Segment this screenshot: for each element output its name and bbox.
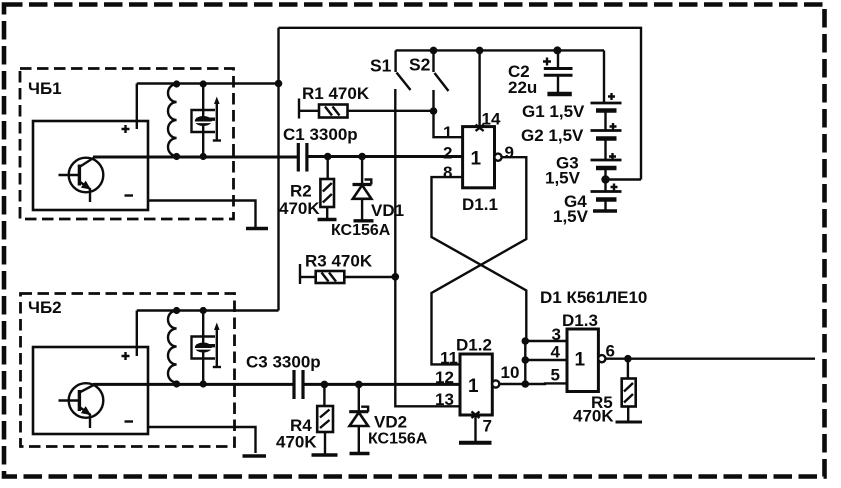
resonator ZQ2 bracket bbox=[192, 337, 216, 359]
svg-text:S2: S2 bbox=[409, 55, 431, 75]
node resonator bottom junction bbox=[200, 153, 207, 160]
switch S1 blade bbox=[397, 73, 411, 91]
svg-text:1: 1 bbox=[468, 376, 479, 397]
CHB1 inner block box bbox=[33, 121, 148, 210]
CHB2 inner block box bbox=[33, 347, 148, 434]
switch S2 blade bbox=[435, 73, 449, 91]
node S2 rail junction bbox=[430, 47, 438, 55]
wire battery tap to right rail bbox=[606, 178, 642, 180]
resistor R2 bottom lead bbox=[326, 207, 328, 219]
battery G4 plus plate bbox=[591, 190, 622, 193]
capacitor C3 left plate bbox=[292, 370, 295, 399]
gate D1.1 box bbox=[463, 127, 495, 188]
battery G3 minus plate bbox=[596, 166, 617, 171]
node pin5 junction bbox=[522, 380, 530, 388]
svg-text:3: 3 bbox=[552, 325, 561, 344]
node junction CHB1 top bbox=[275, 80, 283, 88]
battery G4 minus plate bbox=[596, 197, 617, 202]
svg-text:11: 11 bbox=[440, 349, 458, 368]
plus mark G1 bbox=[608, 93, 615, 100]
wire S1 fixed contact long vertical bbox=[395, 89, 460, 406]
wire CHB2 minus lead bbox=[148, 427, 256, 453]
svg-text:10: 10 bbox=[501, 363, 520, 382]
pin 7 cross mark bbox=[472, 412, 480, 419]
svg-text:22u: 22u bbox=[508, 78, 537, 97]
battery stack top lead bbox=[603, 50, 605, 103]
resistor R1 right lead bbox=[348, 110, 434, 112]
wire CHB2 plus terminal vertical bbox=[136, 311, 138, 357]
node resonator top junction bbox=[200, 80, 207, 87]
node resonator2 top junction bbox=[200, 307, 207, 314]
svg-text:D1.3: D1.3 bbox=[562, 311, 598, 330]
capacitor C2 top lead bbox=[557, 50, 559, 68]
svg-text:1,5V: 1,5V bbox=[553, 207, 589, 226]
svg-text:C1 3300p: C1 3300p bbox=[283, 125, 358, 144]
capacitor C1 right plate bbox=[305, 143, 308, 172]
resistor R3 right lead bbox=[344, 276, 395, 278]
node C2 rail junction bbox=[553, 46, 561, 54]
resistor R3 hatch bbox=[322, 273, 337, 282]
pin 14 cross mark bbox=[476, 125, 484, 132]
battery G3 plus plate bbox=[591, 159, 622, 162]
block CHB1 dashed box bbox=[20, 69, 234, 220]
resonator ZQ2 middle bar bbox=[195, 348, 212, 350]
wire D1.3 pin4 bbox=[525, 359, 567, 361]
svg-text:1: 1 bbox=[443, 123, 452, 142]
svg-text:1: 1 bbox=[471, 149, 482, 170]
wire C3 to D1.2 pin 12 bbox=[303, 383, 460, 386]
svg-text:470K: 470K bbox=[276, 433, 317, 452]
wire CHB1 output (collector line) bbox=[93, 156, 299, 159]
svg-text:D1 К561ЛЕ10: D1 К561ЛЕ10 bbox=[540, 288, 647, 307]
transistor VT1 emitter bbox=[79, 182, 90, 203]
svg-text:VD2: VD2 bbox=[374, 413, 407, 432]
node pin4 junction bbox=[522, 356, 530, 364]
ground for CHB2 bbox=[243, 454, 267, 458]
capacitor C2 plate 1 bbox=[544, 67, 573, 70]
battery stack bottom bar bbox=[593, 209, 617, 213]
transistor VT1 base bar bbox=[78, 165, 81, 186]
battery G1 minus plate bbox=[596, 108, 617, 113]
resistor R1 hatch bbox=[325, 107, 340, 116]
capacitor C2 plate 2 bbox=[544, 74, 573, 77]
transistor VT2 collector bbox=[79, 385, 94, 393]
gate D1.3 output bubble bbox=[598, 355, 605, 362]
wire D1.3 input bus vertical bbox=[524, 341, 526, 384]
resistor R1 left lead bbox=[299, 110, 319, 112]
transistor VT1 circle bbox=[69, 158, 104, 193]
resonator ZQ2 side bar bbox=[197, 344, 216, 347]
resonator ZQ1 bracket bbox=[192, 110, 216, 132]
svg-text:ЧБ1: ЧБ1 bbox=[28, 79, 62, 98]
svg-text:КС156А: КС156А bbox=[331, 222, 391, 239]
resonator ZQ2 trimmer foot bbox=[213, 366, 221, 368]
svg-text:470K: 470K bbox=[279, 199, 320, 218]
resonator ZQ1 trimmer line bbox=[216, 101, 218, 141]
ground for D1.2 pin7 bbox=[459, 441, 492, 445]
wire CHB2 output (collector line) bbox=[93, 383, 294, 386]
transistor VT2 circle bbox=[69, 383, 104, 418]
node R2 junction bbox=[324, 153, 332, 161]
resistor R5 body bbox=[622, 379, 636, 407]
wire D1.1 pin8 feedback bbox=[432, 177, 527, 341]
svg-text:D1.1: D1.1 bbox=[462, 195, 498, 214]
inductor L2 coil bbox=[168, 311, 177, 383]
node R5 junction bbox=[624, 355, 632, 363]
node R4 junction bbox=[321, 381, 329, 389]
wire D1.3 pin5 bbox=[525, 382, 567, 385]
transistor VT1 base lead bbox=[59, 174, 80, 176]
node L2 top junction bbox=[173, 307, 180, 314]
node VD2 junction bbox=[355, 381, 363, 389]
node VD1 junction bbox=[358, 153, 366, 161]
zener VD1 triangle bbox=[353, 185, 372, 199]
resonator ZQ1 trimmer foot bbox=[213, 139, 221, 141]
svg-text:7: 7 bbox=[483, 417, 492, 436]
transistor VT2 base lead bbox=[59, 399, 80, 401]
resistor R2 hatch bbox=[323, 183, 332, 203]
resistor R3 body bbox=[316, 271, 345, 283]
svg-text:13: 13 bbox=[435, 390, 454, 409]
transistor VT1 emitter arrow bbox=[81, 181, 91, 190]
svg-text:14: 14 bbox=[482, 110, 501, 129]
node R1/S2 junction bbox=[430, 107, 438, 115]
resonator ZQ1 body ellipse bbox=[195, 116, 212, 126]
svg-text:S1: S1 bbox=[370, 56, 392, 76]
block CHB2 dashed box bbox=[21, 294, 235, 447]
resistor R1 left tick bbox=[298, 99, 300, 119]
minus mark in CHB2 bbox=[125, 420, 134, 422]
wire CHB1 top rail bbox=[137, 82, 279, 84]
gate D1.2 box bbox=[460, 354, 492, 415]
plus mark G4 bbox=[611, 184, 618, 191]
ground for VD2 bbox=[350, 452, 370, 455]
resistor R5 hatch bbox=[624, 383, 633, 403]
resistor R3 left lead bbox=[300, 276, 316, 278]
node R3/S1 junction bbox=[392, 273, 400, 281]
svg-text:4: 4 bbox=[551, 343, 561, 362]
wire to D1.1 pin 1 bbox=[434, 111, 463, 137]
wire D1.2 pin7 ground lead bbox=[474, 415, 476, 441]
plus mark in CHB2 bbox=[122, 352, 130, 360]
zener VD2 triangle bbox=[350, 412, 369, 426]
gate D1.1 output bubble bbox=[494, 154, 501, 161]
resistor R5 bottom lead bbox=[627, 407, 629, 421]
resistor R5 top lead bbox=[627, 359, 629, 379]
zener VD2 bottom lead bbox=[358, 426, 360, 452]
battery G1 plus plate bbox=[591, 102, 622, 105]
resonator ZQ1 middle bar bbox=[195, 121, 212, 123]
resonator ZQ2 trimmer arrow bbox=[214, 323, 220, 331]
battery G2 minus plate bbox=[596, 136, 617, 141]
wire CHB2 top rail bbox=[137, 309, 279, 311]
inductor L1 coil bbox=[168, 84, 177, 156]
zener VD2 top lead bbox=[358, 384, 360, 411]
wire C1 to D1.1 pin 2 bbox=[307, 155, 463, 158]
wire S2 fixed contact bbox=[432, 90, 434, 111]
wire D1.3 pin3 bbox=[525, 340, 567, 342]
gate D1.2 output bubble bbox=[492, 380, 499, 387]
svg-text:8: 8 bbox=[443, 163, 452, 182]
transistor VT2 base bar bbox=[78, 390, 81, 411]
resistor R4 body bbox=[317, 406, 333, 432]
battery G2 plus plate bbox=[591, 129, 622, 132]
resonator ZQ1 trimmer arrow bbox=[214, 97, 220, 105]
node pin3 junction bbox=[522, 337, 530, 345]
wire CHB1 plus terminal vertical bbox=[136, 84, 138, 130]
wire center vertical bus x=278.5 bbox=[277, 28, 279, 311]
ground for R5 bbox=[616, 421, 643, 424]
resistor R2 top lead bbox=[327, 157, 329, 180]
svg-text:G1 1,5V: G1 1,5V bbox=[522, 102, 585, 121]
svg-text:ЧБ2: ЧБ2 bbox=[28, 298, 62, 317]
node battery tap junction bbox=[601, 175, 609, 183]
battery G4 bottom lead bbox=[604, 200, 606, 211]
resistor R2 body bbox=[320, 179, 334, 207]
switch S1 top stub bbox=[394, 50, 396, 72]
svg-text:КС156А: КС156А bbox=[368, 431, 428, 448]
wire top power rail bbox=[279, 28, 642, 180]
wire CHB1 minus lead bbox=[148, 201, 256, 228]
battery G1-G2 lead bbox=[604, 111, 606, 131]
capacitor C1 left plate bbox=[297, 143, 300, 172]
svg-text:1,5V: 1,5V bbox=[545, 169, 581, 188]
zener VD2 cathode bar bbox=[349, 410, 368, 413]
node L1 top junction bbox=[173, 80, 180, 87]
wire switch rail y=50.4 bbox=[396, 49, 604, 51]
svg-text:9: 9 bbox=[505, 143, 514, 162]
capacitor C3 right plate bbox=[301, 370, 304, 399]
plus mark G3 bbox=[609, 153, 616, 160]
ground for R2 bbox=[318, 218, 337, 221]
resistor R1 body bbox=[319, 105, 348, 118]
node L1 bottom junction bbox=[173, 153, 180, 160]
svg-text:R2: R2 bbox=[290, 182, 312, 201]
svg-text:12: 12 bbox=[435, 368, 454, 387]
node L2 bottom junction bbox=[173, 380, 180, 387]
resistor R4 hatch bbox=[320, 410, 330, 429]
zener VD1 cathode bar bbox=[353, 183, 372, 186]
zener VD1 hook bbox=[365, 180, 372, 185]
svg-text:G2 1,5V: G2 1,5V bbox=[521, 126, 584, 145]
plus mark C2 bbox=[543, 58, 551, 66]
wire D1.2 pin10 output bbox=[499, 383, 524, 385]
capacitor C2 bottom lead bbox=[557, 75, 559, 92]
zener VD1 top lead bbox=[361, 157, 363, 185]
plus mark in CHB1 bbox=[122, 125, 130, 133]
svg-text:C3 3300p: C3 3300p bbox=[246, 353, 321, 372]
gate D1.3 box bbox=[567, 329, 598, 392]
resistor R3 left tick bbox=[299, 264, 301, 284]
svg-text:5: 5 bbox=[551, 366, 560, 385]
svg-text:VD1: VD1 bbox=[371, 201, 404, 220]
resonator ZQ2 vertical lead bbox=[202, 311, 204, 385]
node pin14 rail junction bbox=[476, 47, 484, 55]
svg-text:2: 2 bbox=[443, 144, 452, 163]
resistor R4 top lead bbox=[323, 384, 325, 406]
switch S2 top stub bbox=[432, 50, 434, 72]
ground for CHB1 bbox=[246, 227, 268, 231]
zener VD2 hook bbox=[361, 407, 368, 412]
resonator ZQ1 vertical lead bbox=[202, 84, 204, 157]
svg-text:R3 470K: R3 470K bbox=[305, 252, 373, 271]
svg-text:D1.2: D1.2 bbox=[456, 336, 492, 355]
transistor VT2 emitter arrow bbox=[81, 406, 91, 415]
svg-text:R1 470K: R1 470K bbox=[302, 84, 370, 103]
ground for R4 bbox=[312, 453, 338, 457]
wire D1.1 pin14 vertical bbox=[478, 50, 480, 128]
wire D1.1 pin9 output to D1.2 pin11 bbox=[432, 157, 527, 364]
resonator ZQ2 body ellipse bbox=[195, 343, 212, 353]
transistor VT1 collector bbox=[79, 157, 94, 167]
svg-text:1: 1 bbox=[575, 350, 586, 371]
resonator ZQ2 trimmer line bbox=[216, 327, 218, 367]
node resonator2 bottom junction bbox=[200, 380, 207, 387]
battery G2-G3 lead bbox=[604, 139, 606, 161]
capacitor C2 bottom bar bbox=[547, 92, 571, 96]
ground for VD1 bbox=[354, 219, 374, 222]
wire output line bbox=[605, 358, 815, 360]
battery G3-G4 lead bbox=[604, 168, 606, 192]
zener VD1 bottom lead bbox=[361, 199, 363, 220]
minus mark in CHB1 bbox=[125, 194, 134, 196]
resonator ZQ1 side bar bbox=[197, 117, 216, 120]
resistor R4 bottom lead bbox=[324, 432, 326, 454]
svg-text:470K: 470K bbox=[573, 407, 614, 426]
plus mark G2 bbox=[610, 123, 617, 130]
transistor VT2 emitter bbox=[79, 407, 90, 428]
